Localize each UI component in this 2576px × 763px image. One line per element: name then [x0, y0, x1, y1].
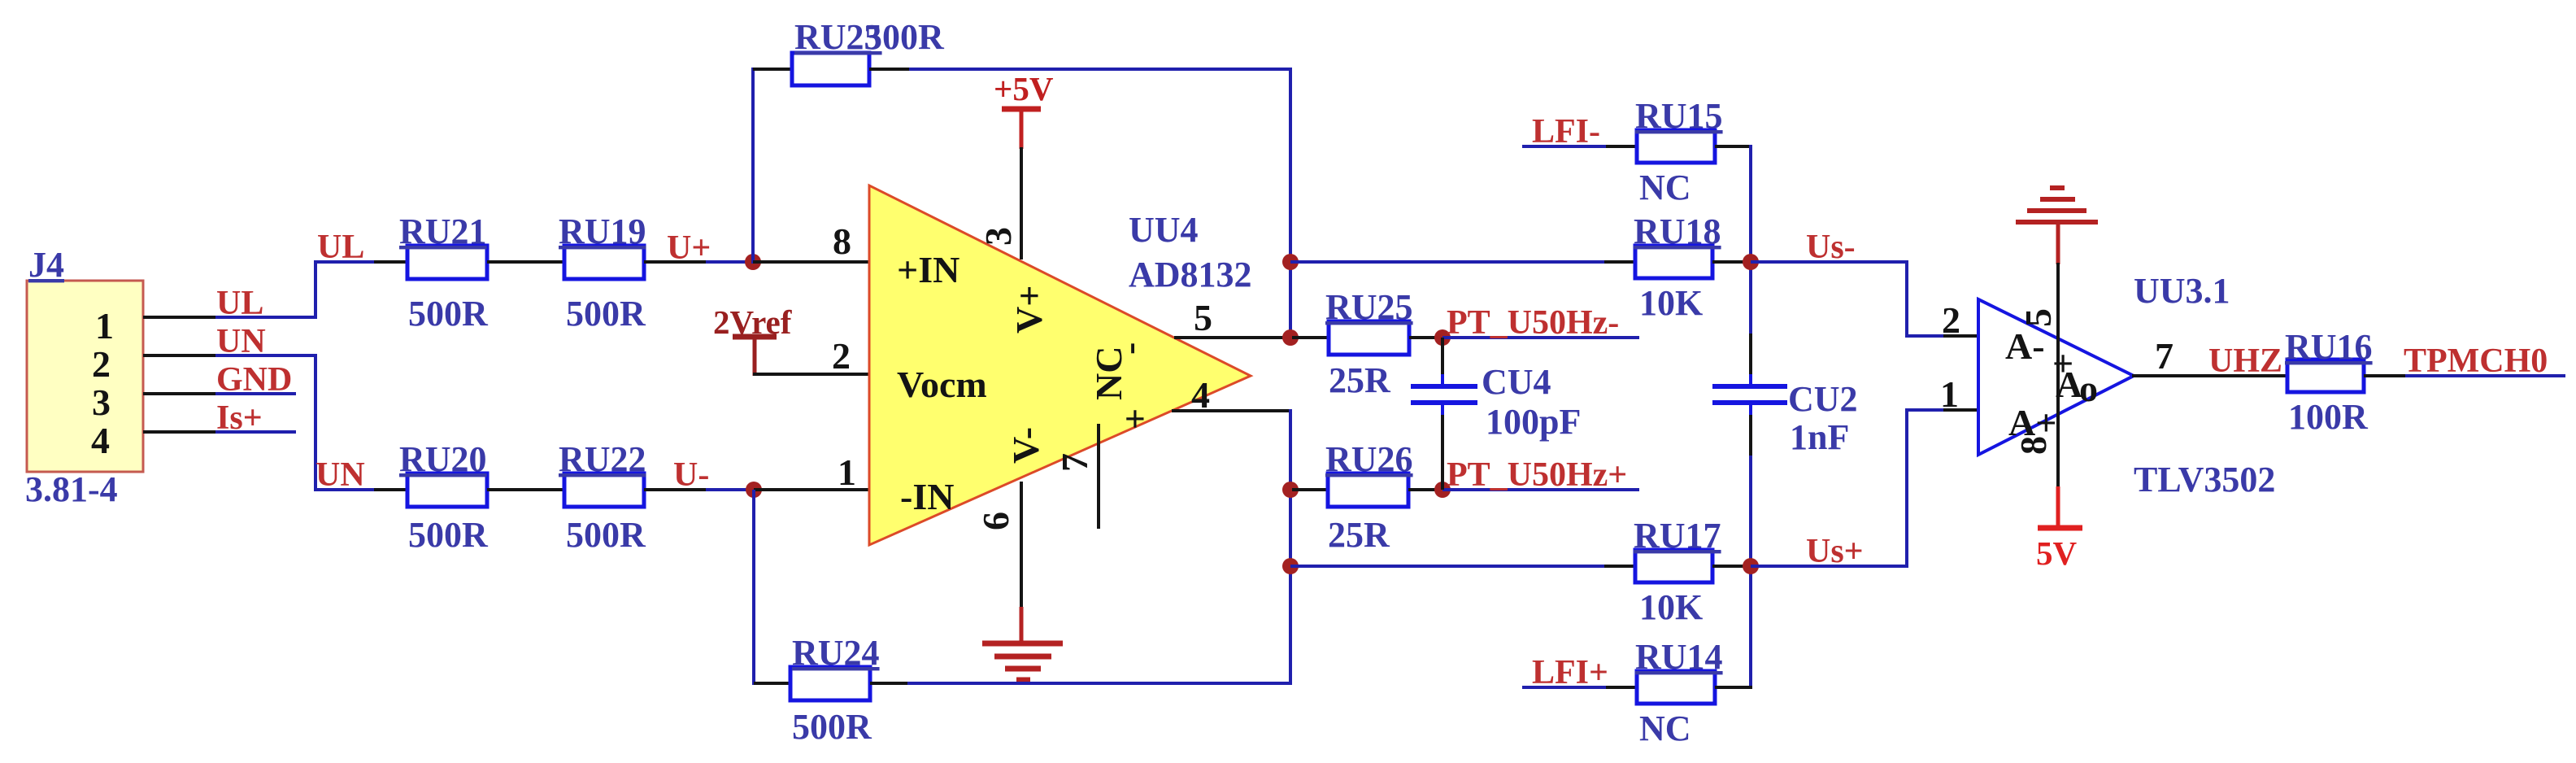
wire comparator pin 1 stub: [1943, 408, 1980, 412]
svg-text:RU16: RU16: [2285, 327, 2373, 367]
svg-text:500R: 500R: [408, 294, 489, 334]
resistor RU24 500R feedback bottom: [754, 633, 909, 747]
wire pin 7 NC: [1097, 424, 1100, 529]
svg-text:7: 7: [1054, 453, 1095, 472]
junction pin4 RU26 tap: [1282, 482, 1299, 498]
resistor RU14 NC: [1606, 637, 1752, 748]
node Us-: [1751, 229, 1908, 266]
node Us+: [1751, 533, 1908, 570]
svg-text:1: 1: [95, 305, 114, 347]
node PT_U50Hz-: [1442, 304, 1639, 342]
node UL at J4: [215, 285, 317, 322]
wire UL riser: [314, 262, 317, 319]
junction U-: [746, 482, 762, 498]
svg-text:RU19: RU19: [559, 211, 646, 251]
svg-text:UU4: UU4: [1129, 210, 1199, 250]
svg-text:GND: GND: [216, 361, 292, 399]
svg-text:2: 2: [832, 335, 851, 377]
svg-text:PT_U50Hz-: PT_U50Hz-: [1447, 304, 1619, 342]
svg-text:UN: UN: [216, 323, 266, 360]
node U+: [667, 229, 755, 267]
node TPMCH0: [2404, 342, 2565, 380]
comparator UU3.1 TLV3502: [1978, 271, 2275, 499]
svg-text:RU20: RU20: [399, 439, 487, 479]
resistor RU20 500R: [374, 439, 526, 555]
wire Us+ to comparator pin 1: [1907, 410, 1945, 566]
svg-text:+IN: +IN: [897, 249, 959, 290]
resistor RU26 25R: [1292, 439, 1444, 555]
wire pin 6: [1020, 482, 1023, 608]
op-amp UU4 AD8132: [869, 185, 1252, 545]
wire comparator supply vertical: [2056, 263, 2060, 488]
svg-text:4: 4: [91, 420, 110, 461]
svg-text:U+: U+: [667, 229, 711, 267]
junction Us+ node: [1743, 558, 1759, 574]
svg-text:10K: 10K: [1639, 587, 1703, 627]
svg-text:25R: 25R: [1328, 515, 1390, 555]
svg-text:PT_U50Hz+: PT_U50Hz+: [1447, 456, 1627, 494]
svg-text:3: 3: [92, 381, 111, 423]
svg-text:1nF: 1nF: [1790, 417, 1849, 457]
resistor RU25 25R: [1292, 287, 1444, 400]
wire feedback top rail: [909, 68, 1292, 71]
wire pin 5: [1174, 336, 1292, 339]
wire pin 8: [753, 260, 871, 264]
resistor RU21 500R: [374, 211, 526, 334]
svg-text:3.81-4: 3.81-4: [25, 469, 118, 509]
junction PT_U50Hz- node: [1434, 329, 1451, 346]
wire U- dropper to RU24: [752, 490, 755, 685]
wire RU18 row from pin5 node: [1290, 260, 1606, 264]
wire J4 pin 2: [143, 354, 217, 357]
svg-text:V-: V-: [1005, 427, 1046, 464]
svg-text:NC: NC: [1639, 708, 1691, 748]
svg-text:10K: 10K: [1639, 283, 1703, 323]
node GND stub: [215, 361, 296, 399]
junction pin4 RU17 tap: [1282, 558, 1299, 574]
svg-text:25R: 25R: [1329, 360, 1391, 400]
svg-text:J4: J4: [28, 245, 64, 285]
svg-text:RU14: RU14: [1635, 637, 1723, 677]
wire comparator output pin 7: [2132, 374, 2289, 377]
resistor RU17 10K: [1604, 516, 1752, 627]
svg-text:7: 7: [2155, 335, 2173, 377]
svg-text:5: 5: [2017, 308, 2059, 327]
svg-text:CU2: CU2: [1788, 379, 1858, 419]
svg-text:8: 8: [2012, 436, 2054, 455]
svg-text:2: 2: [1942, 299, 1960, 341]
svg-text:8: 8: [833, 220, 851, 262]
ground at pin 6: [982, 607, 1063, 680]
svg-text:UN: UN: [315, 456, 365, 494]
svg-text:6: 6: [975, 512, 1016, 530]
wire J4 pin 3: [143, 392, 217, 395]
svg-text:-: -: [1108, 342, 1150, 355]
junction PT_U50Hz+ node: [1434, 482, 1451, 498]
junction feedback/pin5 node: [1282, 329, 1299, 346]
svg-text:RU15: RU15: [1635, 96, 1723, 136]
svg-text:500R: 500R: [566, 515, 646, 555]
wire RU15 to CU2 vertical: [1749, 145, 1752, 335]
svg-text:RU25: RU25: [1325, 287, 1413, 327]
svg-text:UU3.1: UU3.1: [2134, 271, 2230, 311]
svg-text:TPMCH0: TPMCH0: [2404, 342, 2548, 380]
svg-text:-IN: -IN: [900, 476, 954, 517]
node PT_U50Hz+: [1442, 456, 1639, 494]
svg-text:NC: NC: [1639, 168, 1691, 207]
node UL upper rail: [314, 229, 376, 266]
ground at comparator top: [2016, 188, 2098, 264]
svg-text:RU18: RU18: [1634, 211, 1721, 251]
svg-text:RU22: RU22: [559, 439, 646, 479]
power +5V to pin 3: [994, 70, 1054, 149]
wire RU17 row from pin4 dropper: [1290, 565, 1606, 568]
svg-text:RU17: RU17: [1634, 516, 1721, 556]
node UN at J4: [215, 323, 317, 360]
svg-text:V+: V+: [1008, 286, 1050, 334]
svg-text:+: +: [1114, 408, 1155, 429]
wire J4 pin 4: [143, 430, 217, 434]
wire pin 3: [1020, 147, 1023, 259]
svg-text:RU24: RU24: [792, 633, 880, 673]
junction pin5 RU18 tap: [1282, 254, 1299, 270]
svg-text:1: 1: [838, 451, 856, 493]
svg-text:500R: 500R: [566, 294, 646, 334]
wire UN dropper: [314, 354, 317, 490]
svg-text:LFI+: LFI+: [1532, 654, 1608, 691]
node Is+ stub: [215, 399, 296, 437]
svg-text:Is+: Is+: [216, 399, 263, 437]
svg-text:LFI-: LFI-: [1532, 113, 1600, 150]
resistor RU19 500R: [526, 211, 707, 334]
svg-text:4: 4: [1191, 374, 1210, 416]
svg-text:+5V: +5V: [994, 70, 1054, 107]
wire feedback right dropper: [1289, 68, 1292, 338]
svg-text:3: 3: [977, 227, 1019, 246]
wire pin 2: [753, 373, 871, 376]
svg-text:500R: 500R: [864, 17, 945, 57]
wire comparator pin 2 stub: [1943, 334, 1980, 338]
svg-text:U-: U-: [673, 456, 709, 494]
svg-text:RU26: RU26: [1325, 439, 1413, 479]
power 2Vref: [713, 303, 793, 376]
svg-text:o: o: [2079, 368, 2098, 409]
svg-text:500R: 500R: [792, 707, 872, 747]
connector J4: [25, 245, 143, 509]
svg-text:5V: 5V: [2036, 534, 2078, 572]
svg-text:100pF: 100pF: [1486, 402, 1581, 442]
svg-text:TLV3502: TLV3502: [2134, 460, 2275, 499]
wire U+ riser to feedback: [751, 68, 755, 264]
wire pin 1: [754, 488, 871, 491]
svg-text:UHZ: UHZ: [2208, 342, 2282, 380]
svg-text:UL: UL: [317, 229, 364, 266]
resistor RU16 100R: [2285, 327, 2407, 437]
svg-text:CU4: CU4: [1482, 362, 1551, 402]
svg-text:500R: 500R: [408, 515, 489, 555]
node LFI+: [1522, 654, 1608, 691]
svg-text:Us+: Us+: [1806, 533, 1864, 570]
resistor RU15 NC: [1606, 96, 1750, 207]
node LFI-: [1522, 113, 1608, 150]
svg-text:1: 1: [1940, 373, 1959, 415]
node U-: [673, 456, 755, 494]
junction Us- node: [1743, 254, 1759, 270]
node UN lower rail: [314, 456, 376, 494]
junction U+: [745, 254, 761, 270]
capacitor CU2 1nF: [1712, 334, 1858, 689]
resistor RU18 10K: [1604, 211, 1752, 323]
svg-text:2: 2: [92, 343, 111, 385]
resistor RU22 500R: [526, 439, 707, 555]
svg-text:Vocm: Vocm: [897, 364, 987, 405]
wire feedback bottom rail: [907, 682, 1292, 685]
wire J4 pin 1: [143, 316, 217, 319]
svg-text:Us-: Us-: [1806, 229, 1856, 266]
wire pin 4: [1172, 409, 1292, 412]
wire pin4 dropper: [1289, 409, 1292, 685]
svg-text:UL: UL: [216, 285, 263, 322]
svg-text:RU21: RU21: [399, 211, 487, 251]
svg-text:AD8132: AD8132: [1129, 255, 1252, 294]
resistor RU23 500R feedback top: [753, 17, 945, 85]
svg-text:5: 5: [1194, 297, 1212, 338]
svg-text:A-: A-: [2005, 325, 2045, 367]
wire Us- to comparator pin 2: [1907, 262, 1945, 336]
capacitor CU4 100pF: [1411, 338, 1581, 490]
svg-text:100R: 100R: [2288, 397, 2369, 437]
power 5V at comparator bottom: [2036, 486, 2082, 572]
